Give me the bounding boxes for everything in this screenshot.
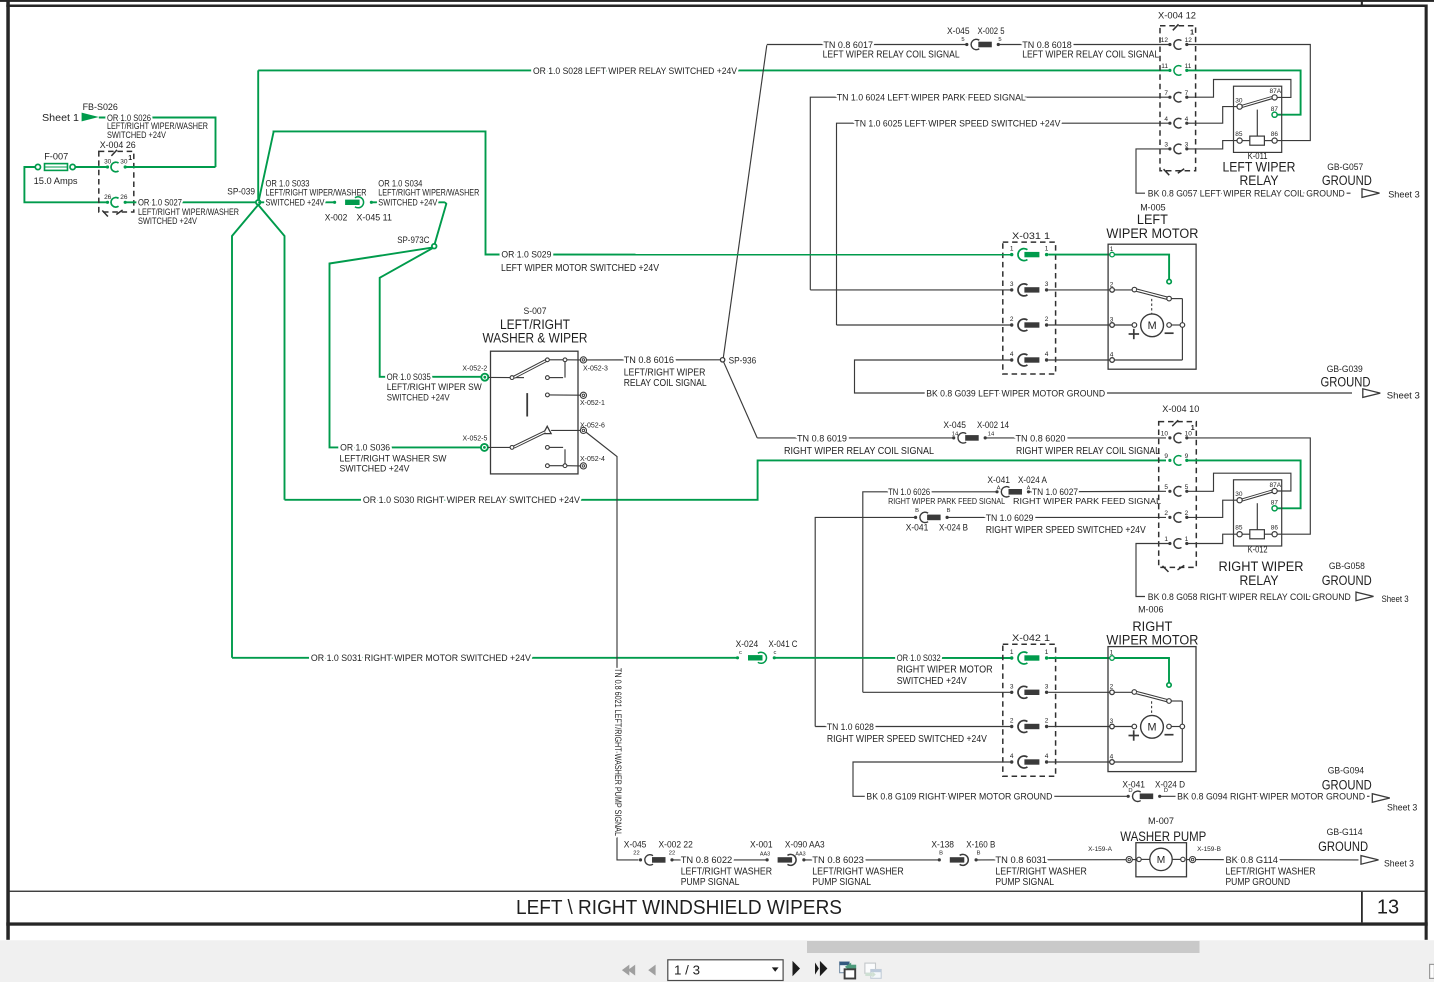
svg-text:1: 1 — [1045, 649, 1049, 656]
svg-text:TN 0.8 6031: TN 0.8 6031 — [995, 855, 1047, 866]
svg-text:RELAY: RELAY — [1240, 573, 1279, 588]
svg-text:3: 3 — [1110, 316, 1114, 323]
wire BK 0.8 G039 left wiper motor ground — [855, 360, 1353, 393]
svg-text:86: 86 — [1271, 131, 1279, 138]
svg-text:22: 22 — [633, 851, 639, 857]
svg-text:X-001: X-001 — [750, 839, 773, 850]
connector X-002 / X-045 11 — [333, 201, 336, 204]
wire TN 0.8 6022 — [672, 859, 767, 861]
connector X-004 pin 26 — [106, 201, 109, 204]
svg-text:BK 0.8 G114: BK 0.8 G114 — [1226, 855, 1278, 866]
svg-text:GB-G058: GB-G058 — [1329, 561, 1365, 572]
connector X-004 pin 5 lower — [1168, 490, 1171, 493]
wire pin2 to relay K-012 30 — [1187, 500, 1237, 517]
svg-text:B: B — [915, 508, 919, 514]
wire pin30 to S026 riser — [125, 166, 215, 168]
svg-text:BK 0.8 G109 RIGHT WIPER MOTOR: BK 0.8 G109 RIGHT WIPER MOTOR GROUND — [866, 792, 1052, 803]
wire OR 1.0 S029 to X-031 pin1 — [500, 254, 1012, 256]
svg-text:4: 4 — [1045, 753, 1049, 760]
svg-text:TN 0.8 6022: TN 0.8 6022 — [681, 855, 733, 866]
svg-text:LEFT/RIGHT WIPER SW: LEFT/RIGHT WIPER SW — [387, 382, 482, 393]
title bar — [8, 891, 1426, 892]
svg-text:2: 2 — [1045, 718, 1049, 725]
wire BK 0.8 G109 right wiper motor ground — [853, 762, 1128, 796]
svg-text:Sheet 3: Sheet 3 — [1382, 594, 1409, 605]
wire BK 0.8 G058 right relay coil ground — [1136, 544, 1170, 597]
svg-text:OR 1.0 S028 LEFT WIPER RELAY S: OR 1.0 S028 LEFT WIPER RELAY SWITCHED +2… — [533, 66, 738, 77]
svg-text:RIGHT WIPER: RIGHT WIPER — [1219, 559, 1304, 574]
wire X-031 pin 2 to motor — [1048, 324, 1112, 326]
svg-text:9: 9 — [1185, 453, 1189, 460]
svg-text:LEFT/RIGHT WASHER: LEFT/RIGHT WASHER — [812, 866, 903, 877]
svg-text:X-002: X-002 — [325, 213, 348, 224]
svg-text:RIGHT WIPER RELAY COIL SIGNAL: RIGHT WIPER RELAY COIL SIGNAL — [784, 446, 934, 457]
wire TN 1.0 6029 right wiper speed — [815, 517, 915, 726]
wire BK 0.8 G094 — [1160, 795, 1370, 797]
svg-text:B: B — [977, 851, 981, 857]
svg-text:X-052-3: X-052-3 — [583, 366, 608, 373]
connector X-004 pin 7 — [1168, 96, 1171, 99]
svg-text:4: 4 — [1010, 753, 1014, 760]
svg-text:X-041: X-041 — [906, 523, 929, 534]
connector X-031 pin 3 — [1010, 288, 1013, 291]
svg-text:RIGHT WIPER SPEED SWITCHED +24: RIGHT WIPER SPEED SWITCHED +24V — [827, 734, 987, 745]
wire OR 1.0 S034 — [371, 201, 445, 203]
svg-text:2: 2 — [1010, 718, 1014, 725]
svg-text:LEFT/RIGHT: LEFT/RIGHT — [500, 317, 570, 332]
svg-text:Sheet 1: Sheet 1 — [42, 113, 79, 124]
switch wiper blade — [514, 377, 524, 379]
wire S029 feed branch — [259, 131, 500, 254]
svg-text:85: 85 — [1235, 131, 1243, 138]
wire OR 1.0 S033 — [258, 201, 334, 203]
svg-text:GB-G114: GB-G114 — [1327, 827, 1363, 838]
svg-text:SP-973C: SP-973C — [397, 235, 430, 245]
svg-text:RIGHT WIPER MOTOR: RIGHT WIPER MOTOR — [897, 665, 993, 676]
splice SP-973C — [432, 244, 437, 249]
wire TN 1.0 6024 left wiper park feed — [810, 97, 1168, 290]
page number box 1 / 3 — [668, 960, 783, 981]
svg-text:RIGHT WIPER SPEED SWITCHED +24: RIGHT WIPER SPEED SWITCHED +24V — [986, 525, 1146, 536]
svg-text:5: 5 — [1164, 484, 1168, 491]
svg-text:PUMP SIGNAL: PUMP SIGNAL — [995, 877, 1054, 888]
svg-text:TN 0.8 6016: TN 0.8 6016 — [624, 355, 674, 366]
svg-text:M-006: M-006 — [1138, 605, 1163, 616]
svg-text:2: 2 — [1164, 510, 1168, 517]
svg-text:X-024: X-024 — [736, 639, 759, 650]
svg-text:TN 0.8 6020: TN 0.8 6020 — [1016, 433, 1066, 444]
svg-text:GROUND: GROUND — [1322, 173, 1372, 188]
svg-text:X-045 11: X-045 11 — [357, 213, 392, 224]
svg-text:X-045: X-045 — [624, 839, 647, 850]
svg-text:X-052-4: X-052-4 — [580, 456, 605, 463]
wire pin9 to relay K-012 87 (green) — [1187, 460, 1301, 508]
svg-text:c: c — [739, 650, 742, 656]
svg-text:WASHER PUMP: WASHER PUMP — [1120, 829, 1206, 844]
wire BK 0.8 G057 relay coil ground — [1136, 149, 1170, 193]
svg-text:GB-G057: GB-G057 — [1327, 162, 1363, 173]
svg-text:M: M — [1148, 320, 1157, 332]
wire X-042 pin 4 to motor — [1048, 761, 1112, 763]
svg-text:TN 1.0 6029: TN 1.0 6029 — [986, 513, 1034, 524]
wire TN 0.8 6018 — [998, 44, 1168, 46]
svg-text:RIGHT WIPER PARK FEED SIGNAL: RIGHT WIPER PARK FEED SIGNAL — [1013, 496, 1161, 506]
svg-text:TN 0.8 6023: TN 0.8 6023 — [812, 855, 864, 866]
svg-text:GROUND: GROUND — [1321, 375, 1371, 390]
wire branch to S031 — [232, 204, 259, 658]
svg-text:15.0 Amps: 15.0 Amps — [34, 176, 78, 187]
connector X-004 pin 1 lower — [1168, 542, 1171, 545]
svg-text:SWITCHED +24V: SWITCHED +24V — [266, 198, 326, 209]
switch washer lower contacts — [546, 446, 550, 450]
svg-text:7: 7 — [1164, 90, 1168, 97]
svg-text:RELAY COIL SIGNAL: RELAY COIL SIGNAL — [624, 377, 707, 389]
svg-text:X-159-B: X-159-B — [1197, 846, 1221, 853]
svg-text:PUMP SIGNAL: PUMP SIGNAL — [681, 877, 740, 888]
switch mid contact to X-052-1 — [546, 393, 550, 397]
svg-text:OR 1.0 S029: OR 1.0 S029 — [501, 250, 551, 261]
svg-text:SWITCHED +24V: SWITCHED +24V — [897, 676, 967, 687]
svg-text:X-052-1: X-052-1 — [580, 400, 605, 407]
last page button — [815, 963, 819, 975]
svg-text:GB-G039: GB-G039 — [1327, 364, 1363, 375]
svg-text:OR 1.0 S036: OR 1.0 S036 — [340, 443, 390, 454]
ground GB-G039 sheet3 arrow — [1363, 389, 1381, 398]
svg-text:4: 4 — [1010, 351, 1014, 358]
svg-text:4: 4 — [1045, 351, 1049, 358]
connector X-004 pin 30 — [106, 165, 109, 168]
svg-text:PUMP SIGNAL: PUMP SIGNAL — [812, 877, 871, 888]
connector X-004 pin 10 lower — [1168, 436, 1171, 439]
connector X-042 pin 4 — [1010, 760, 1013, 763]
svg-text:1: 1 — [1110, 649, 1114, 656]
svg-text:X-024 A: X-024 A — [1018, 475, 1048, 486]
svg-text:TN 1.0 6025 LEFT WIPER SPEED S: TN 1.0 6025 LEFT WIPER SPEED SWITCHED +2… — [854, 119, 1061, 130]
svg-text:87: 87 — [1271, 500, 1279, 507]
svg-text:LEFT: LEFT — [1137, 212, 1168, 227]
wire TN 1.0 6029 label — [947, 516, 1166, 518]
switch detent bar — [526, 393, 528, 416]
svg-text:TN 1.0 6024 LEFT WIPER PARK FE: TN 1.0 6024 LEFT WIPER PARK FEED SIGNAL — [837, 93, 1026, 104]
svg-text:X-045: X-045 — [947, 26, 970, 37]
svg-text:X-052-5: X-052-5 — [463, 436, 488, 443]
svg-text:SWITCHED +24V: SWITCHED +24V — [138, 216, 198, 227]
wire TN 0.8 6031 — [976, 859, 1126, 861]
wire pin1 to relay K-012 85 — [1187, 534, 1237, 543]
wire X-042 pin 1 to motor — [1048, 657, 1112, 659]
wire pin5 to relay K-012 87A — [1187, 473, 1291, 491]
svg-text:LEFT \ RIGHT WINDSHIELD WIPERS: LEFT \ RIGHT WINDSHIELD WIPERS — [516, 896, 842, 919]
svg-text:26: 26 — [104, 194, 112, 201]
svg-text:X-024 D: X-024 D — [1155, 779, 1185, 790]
svg-text:30: 30 — [1235, 491, 1243, 498]
connector X-004 pin 11 — [1168, 69, 1171, 72]
svg-text:1: 1 — [128, 155, 132, 162]
svg-text:X-045: X-045 — [943, 420, 966, 431]
svg-text:1: 1 — [1110, 246, 1114, 253]
svg-text:X-160 B: X-160 B — [966, 839, 995, 850]
svg-text:26: 26 — [120, 194, 128, 201]
svg-text:87: 87 — [1271, 106, 1279, 113]
svg-text:c: c — [774, 650, 777, 656]
svg-text:GROUND: GROUND — [1322, 573, 1372, 588]
connector X-004 pin 4 — [1168, 122, 1171, 125]
splice SP-039 — [256, 200, 261, 205]
svg-text:LEFT/RIGHT WASHER: LEFT/RIGHT WASHER — [681, 866, 772, 877]
svg-text:11: 11 — [1185, 63, 1192, 70]
connector X-004 pin 2 lower — [1168, 516, 1171, 519]
svg-text:Sheet 3: Sheet 3 — [1387, 802, 1417, 813]
svg-text:4: 4 — [1110, 753, 1114, 760]
svg-text:30: 30 — [120, 159, 128, 166]
svg-text:1 / 3: 1 / 3 — [674, 962, 700, 977]
svg-text:B: B — [947, 508, 951, 514]
svg-text:5: 5 — [1185, 484, 1189, 491]
svg-text:X-159-A: X-159-A — [1088, 846, 1113, 853]
connector X-031 pin 1 — [1010, 253, 1013, 256]
svg-text:GB-G094: GB-G094 — [1328, 766, 1364, 777]
svg-text:X-041: X-041 — [1122, 779, 1145, 790]
svg-text:GROUND: GROUND — [1322, 778, 1372, 793]
relay K-012 RIGHT WIPER RELAY — [1234, 480, 1282, 546]
wire TN 1.0 6025 to X-031 pin2 — [837, 324, 1012, 326]
svg-text:85: 85 — [1235, 524, 1243, 531]
connector X-042 pin 2 — [1010, 725, 1013, 728]
svg-text:OR 1.0 S032: OR 1.0 S032 — [897, 653, 941, 664]
svg-text:SWITCHED +24V: SWITCHED +24V — [387, 393, 451, 404]
switch washer triangle contact — [543, 426, 551, 433]
svg-text:3: 3 — [1045, 281, 1049, 288]
wire S034 drop to SP-973C — [435, 202, 447, 244]
svg-text:1: 1 — [1045, 246, 1049, 253]
wire OR 1.0 S028 left wiper relay switched — [258, 69, 1168, 71]
svg-text:X-041 C: X-041 C — [769, 639, 798, 650]
svg-text:5: 5 — [961, 37, 964, 43]
wire OR 1.0 S030 right wiper relay switched — [285, 460, 1167, 499]
svg-text:D: D — [1128, 788, 1132, 794]
svg-text:X-004 12: X-004 12 — [1158, 11, 1196, 22]
svg-text:BK 0.8 G094 RIGHT WIPER MOTOR: BK 0.8 G094 RIGHT WIPER MOTOR GROUND — [1177, 792, 1365, 803]
svg-text:3: 3 — [1045, 683, 1049, 690]
svg-text:10: 10 — [1185, 431, 1193, 438]
svg-text:WIPER MOTOR: WIPER MOTOR — [1106, 226, 1198, 241]
wire SP-973C to S036 branch — [330, 248, 482, 448]
wire TN 1.0 6025 left wiper speed — [837, 123, 1169, 325]
wire TN 0.8 6023 — [804, 859, 939, 861]
svg-text:4: 4 — [1185, 116, 1189, 123]
svg-text:30: 30 — [1235, 97, 1243, 104]
connector X-042 pin 1 — [1010, 656, 1013, 659]
next view icon (disabled) — [865, 963, 876, 973]
wire TN 0.8 6016 — [587, 359, 721, 361]
svg-text:S-007: S-007 — [524, 306, 547, 317]
first page button — [622, 965, 629, 976]
svg-text:GROUND: GROUND — [1318, 839, 1368, 854]
svg-text:2: 2 — [1110, 281, 1114, 288]
wire TN 1.0 6027 — [1029, 490, 1167, 493]
svg-text:3: 3 — [1010, 281, 1014, 288]
svg-text:22: 22 — [669, 851, 675, 857]
svg-text:7: 7 — [1185, 90, 1189, 97]
wire OR 1.0 S026 — [99, 118, 216, 168]
wire fuse feed — [75, 166, 107, 168]
svg-text:Sheet 3: Sheet 3 — [1384, 858, 1414, 869]
svg-text:SP-936: SP-936 — [729, 355, 757, 365]
svg-text:2: 2 — [1110, 684, 1114, 691]
wire TN 0.8 6017 — [767, 44, 967, 46]
svg-text:87A: 87A — [1270, 88, 1282, 95]
page frame header tick — [1361, 0, 1363, 5]
svg-text:X-031 1: X-031 1 — [1012, 231, 1050, 242]
wire TN 1.0 6028 — [815, 726, 1010, 728]
svg-text:12: 12 — [1161, 37, 1169, 44]
ground GB-G114 sheet3 arrow — [1361, 856, 1379, 865]
svg-text:SWITCHED +24V: SWITCHED +24V — [378, 198, 438, 209]
svg-text:11: 11 — [1161, 63, 1168, 70]
svg-text:5: 5 — [998, 37, 1001, 43]
ground GB-G058 sheet3 arrow — [1356, 592, 1374, 601]
wire SP-936 down to TN6019 — [724, 362, 758, 438]
svg-text:14: 14 — [988, 431, 995, 437]
svg-text:X-002 22: X-002 22 — [659, 839, 693, 850]
svg-text:F-007: F-007 — [44, 151, 68, 162]
svg-text:X-004 10: X-004 10 — [1162, 404, 1199, 415]
wire pin11 to relay 87 (green) — [1187, 70, 1301, 114]
wire BK 0.8 G114 pump ground — [1196, 859, 1359, 861]
page frame border — [6, 5, 1427, 8]
switch pin X-052-1 — [580, 392, 586, 398]
wire branch to S030 — [258, 204, 285, 500]
connector X-004 pin 9 lower — [1168, 459, 1171, 462]
svg-text:D: D — [1164, 788, 1168, 794]
svg-text:RIGHT WIPER PARK FEED SIGNAL: RIGHT WIPER PARK FEED SIGNAL — [888, 496, 1005, 506]
svg-text:AA3: AA3 — [795, 851, 805, 857]
wire SP-973C to S035 branch — [380, 248, 482, 377]
svg-text:RIGHT WIPER RELAY COIL SIGNAL: RIGHT WIPER RELAY COIL SIGNAL — [1016, 446, 1160, 457]
ground GB-G057 sheet3 arrow — [1362, 189, 1380, 198]
svg-text:86: 86 — [1271, 524, 1279, 531]
svg-text:2: 2 — [1010, 316, 1014, 323]
svg-text:OR 1.0 S031 RIGHT WIPER MOTOR: OR 1.0 S031 RIGHT WIPER MOTOR SWITCHED +… — [311, 653, 532, 664]
svg-text:X-004 26: X-004 26 — [100, 140, 136, 151]
next page button — [793, 961, 801, 976]
horizontal scrollbar thumb — [807, 941, 1200, 953]
svg-text:1: 1 — [1010, 246, 1014, 253]
svg-text:AA3: AA3 — [760, 851, 770, 857]
wire OR 1.0 S031 right wiper motor switched — [232, 657, 737, 659]
svg-text:PUMP GROUND: PUMP GROUND — [1226, 877, 1291, 888]
svg-text:X-002 5: X-002 5 — [978, 26, 1005, 37]
svg-text:OR 1.0 S030 RIGHT WIPER RELAY: OR 1.0 S030 RIGHT WIPER RELAY SWITCHED +… — [363, 495, 581, 506]
svg-text:BK 0.8 G058 RIGHT WIPER RELAY: BK 0.8 G058 RIGHT WIPER RELAY COIL GROUN… — [1148, 592, 1351, 603]
wire X-031 pin 1 to motor — [1048, 254, 1112, 256]
svg-text:M: M — [1157, 855, 1166, 866]
ground GB-G094 sheet3 arrow — [1372, 794, 1390, 803]
svg-text:WASHER & WIPER: WASHER & WIPER — [483, 331, 588, 346]
svg-text:3: 3 — [1110, 718, 1114, 725]
relay K-011 LEFT WIPER RELAY — [1234, 86, 1282, 152]
svg-text:X-138: X-138 — [931, 839, 954, 850]
wire TN 0.8 6019 — [757, 437, 954, 439]
connector X-004 pin 3 — [1168, 147, 1171, 150]
svg-text:30: 30 — [104, 159, 112, 166]
switch washer blade — [514, 432, 545, 447]
splice SP-936 — [720, 358, 724, 362]
svg-text:LEFT WIPER MOTOR SWITCHED +24V: LEFT WIPER MOTOR SWITCHED +24V — [501, 262, 659, 274]
wire pin12 to relay 86 — [1187, 45, 1311, 141]
wire pin3 to relay 85 — [1187, 141, 1237, 149]
svg-text:X-002 14: X-002 14 — [977, 420, 1009, 431]
svg-text:RIGHT: RIGHT — [1132, 619, 1172, 634]
page frame top header line — [0, 0, 1434, 2]
wire pin4 to relay 30 — [1187, 107, 1237, 124]
svg-text:Sheet 3: Sheet 3 — [1388, 190, 1420, 201]
svg-text:TN 0.8 6019: TN 0.8 6019 — [797, 433, 847, 444]
wire X-042 pin 3 to motor — [1048, 691, 1112, 693]
svg-text:FB-S026: FB-S026 — [83, 102, 118, 113]
wire X-031 pin 4 to motor — [1048, 359, 1112, 361]
connector X-031 pin 4 — [1010, 358, 1013, 361]
svg-text:K-012: K-012 — [1248, 545, 1268, 555]
svg-text:4: 4 — [1110, 351, 1114, 358]
switch pin X-052-3 — [580, 357, 586, 363]
svg-text:SP-039: SP-039 — [227, 186, 255, 196]
wire TN 0.8 6021 washer pump signal — [586, 432, 639, 860]
svg-text:LEFT/RIGHT WASHER: LEFT/RIGHT WASHER — [995, 866, 1086, 877]
svg-text:9: 9 — [1164, 453, 1168, 460]
svg-text:BK 0.8 G039 LEFT WIPER MOTOR G: BK 0.8 G039 LEFT WIPER MOTOR GROUND — [926, 388, 1105, 399]
svg-text:X-090 AA3: X-090 AA3 — [785, 839, 825, 850]
svg-text:87A: 87A — [1270, 482, 1282, 489]
connector X-042 pin 3 — [1010, 691, 1013, 694]
svg-text:BK 0.8 G057 LEFT WIPER RELAY C: BK 0.8 G057 LEFT WIPER RELAY COIL GROUND — [1148, 189, 1345, 200]
wire OR 1.0 S032 — [774, 657, 1011, 659]
svg-text:X-041: X-041 — [987, 475, 1010, 486]
svg-text:2: 2 — [1185, 510, 1189, 517]
wire TN 1.0 6024 to X-031 pin3 — [810, 289, 1011, 291]
svg-text:RELAY: RELAY — [1240, 173, 1279, 188]
svg-text:B: B — [939, 851, 943, 857]
svg-text:TN 1.0 6028: TN 1.0 6028 — [827, 722, 874, 733]
svg-text:12: 12 — [1185, 37, 1193, 44]
previous page button — [648, 965, 655, 976]
wire TN 1.0 6026 to X-042 pin3 — [863, 691, 1010, 693]
wire X-031 pin 3 to motor — [1048, 289, 1112, 291]
partial icon at right edge — [1430, 964, 1434, 978]
svg-text:X-052-2: X-052-2 — [462, 365, 487, 372]
connector X-031 pin 2 — [1010, 323, 1013, 326]
svg-text:LEFT WIPER RELAY COIL SIGNAL: LEFT WIPER RELAY COIL SIGNAL — [823, 49, 960, 60]
svg-text:LEFT WIPER RELAY COIL SIGNAL: LEFT WIPER RELAY COIL SIGNAL — [1022, 49, 1159, 60]
svg-text:WIPER MOTOR: WIPER MOTOR — [1106, 633, 1198, 648]
wire SP-936 up to TN6017 — [723, 45, 767, 358]
wire OR 1.0 S028 riser — [257, 70, 259, 202]
connector X-004 pin 12 — [1168, 43, 1171, 46]
wire TN 1.0 6026 right wiper park feed — [863, 492, 997, 693]
svg-text:1: 1 — [1190, 29, 1194, 36]
wire TN 0.8 6020 — [985, 437, 1166, 439]
svg-text:13: 13 — [1377, 896, 1399, 918]
svg-text:M-007: M-007 — [1148, 816, 1174, 827]
svg-text:X-042 1: X-042 1 — [1012, 633, 1050, 644]
svg-text:1: 1 — [1164, 536, 1168, 543]
svg-text:X-052-6: X-052-6 — [580, 422, 605, 429]
wire pin10 to relay K-012 86 — [1187, 438, 1311, 534]
svg-text:3: 3 — [1010, 683, 1014, 690]
svg-text:3: 3 — [1164, 142, 1168, 149]
svg-text:1: 1 — [1010, 649, 1014, 656]
svg-text:1: 1 — [1185, 536, 1189, 543]
